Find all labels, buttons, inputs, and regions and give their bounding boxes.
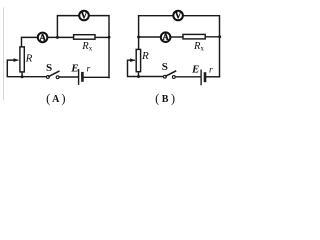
wire: B left vertical (V corner down to rheostat) bbox=[138, 16, 140, 50]
svg-text:V: V bbox=[81, 10, 88, 20]
wire: voltmeter branch left vertical bbox=[57, 16, 78, 38]
battery E,r (A): long plate bbox=[78, 70, 80, 84]
switch S (A) bbox=[47, 71, 59, 78]
wire: Rx right to right vertical bbox=[95, 36, 109, 38]
rheostat R (B) bbox=[136, 49, 140, 71]
wire: A top-left corner down to rheostat bbox=[22, 37, 37, 47]
svg-text:( A ): ( A ) bbox=[46, 91, 65, 105]
svg-text:S: S bbox=[46, 62, 52, 74]
junction node: B Rx right / right vertical bbox=[218, 35, 221, 38]
wire: B rheostat bottom stub bbox=[138, 72, 140, 77]
resistor Rx (B) bbox=[183, 34, 205, 39]
wire: bottom wire from switch to battery bbox=[59, 76, 78, 78]
svg-text:r: r bbox=[87, 65, 91, 75]
svg-text:( B ): ( B ) bbox=[155, 91, 175, 105]
ammeter A2 bbox=[161, 32, 171, 42]
svg-text:r: r bbox=[209, 66, 213, 76]
junction node: B rheostat bottom on bottom wire bbox=[137, 75, 140, 78]
wire: B ammeter to Rx bbox=[171, 36, 183, 38]
wire: rheostat slider arm and left vertical down to bottom wire bbox=[7, 60, 47, 77]
resistor Rx (A) bbox=[74, 35, 95, 40]
svg-text:Rx: Rx bbox=[81, 41, 92, 53]
wire: B battery to bottom-right corner bbox=[206, 76, 219, 78]
wire: B voltmeter branch right and right vertical bbox=[184, 16, 220, 77]
svg-text:Rx: Rx bbox=[193, 41, 204, 53]
wire: B bottom wire from switch to battery bbox=[175, 76, 200, 78]
switch S (B) bbox=[164, 71, 176, 78]
wire: B Rx right to right vertical bbox=[205, 36, 219, 38]
rheostat R (B) slider arrowhead bbox=[130, 58, 136, 62]
svg-text:A: A bbox=[162, 32, 169, 42]
svg-text:V: V bbox=[175, 10, 182, 20]
wire: main top wire from ammeter to Rx bbox=[48, 36, 73, 38]
svg-text:R: R bbox=[25, 52, 33, 64]
svg-text:S: S bbox=[162, 61, 168, 73]
wire: rheostat bottom stub bbox=[21, 72, 23, 77]
wire: battery to bottom-right corner bbox=[84, 76, 109, 78]
battery E,r (A): short thick plate bbox=[81, 73, 84, 80]
svg-text:R: R bbox=[141, 50, 149, 62]
junction node: Rx right / right vertical (A) bbox=[108, 36, 111, 39]
voltmeter V2 bbox=[173, 10, 183, 20]
svg-text:E: E bbox=[191, 63, 199, 75]
junction node: B main wire tap on left vertical bbox=[137, 36, 140, 39]
battery E,r (B): short thick plate bbox=[204, 74, 207, 81]
junction node: rheostat bottom on bottom wire (A) bbox=[21, 75, 24, 78]
svg-text:E: E bbox=[70, 63, 78, 75]
rheostat R (A) slider arrowhead bbox=[14, 58, 20, 62]
wire: voltmeter branch right segment and right vertical bbox=[90, 16, 109, 78]
junction node: V branch tap on main wire (A) bbox=[56, 36, 59, 39]
wire: B rheostat slider arm and left vertical down to bottom wire bbox=[128, 60, 165, 76]
battery E,r (B): long plate bbox=[200, 70, 202, 84]
voltmeter V1 bbox=[79, 10, 89, 20]
rheostat R (A) bbox=[20, 47, 24, 72]
wire: B main wire junction to ammeter bbox=[139, 36, 160, 38]
ammeter A1 bbox=[38, 32, 48, 42]
wire: B voltmeter branch top left bbox=[139, 15, 173, 17]
svg-text:A: A bbox=[39, 32, 46, 42]
